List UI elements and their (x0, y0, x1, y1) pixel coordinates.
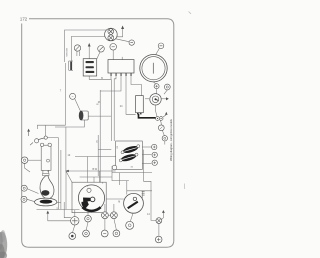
svg-text:~: ~ (72, 95, 74, 99)
svg-text:B.W: B.W (93, 168, 98, 171)
svg-text:Wiring diagram - coil ignition: Wiring diagram - coil ignition models (169, 118, 173, 160)
svg-text:BROWN: BROWN (65, 48, 67, 57)
svg-text:M: M (118, 202, 120, 204)
svg-text:172: 172 (20, 16, 28, 21)
